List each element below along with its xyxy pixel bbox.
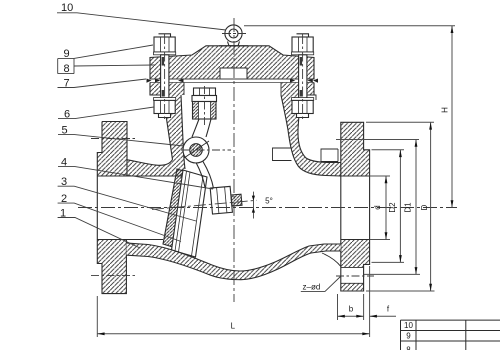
svg-text:D2: D2: [388, 202, 397, 213]
svg-text:7: 7: [64, 78, 70, 90]
svg-text:6: 6: [64, 109, 70, 121]
svg-text:5°: 5°: [265, 197, 273, 206]
svg-text:3: 3: [61, 176, 67, 188]
svg-text:4: 4: [61, 157, 67, 169]
svg-text:5: 5: [62, 125, 68, 137]
svg-text:10: 10: [61, 2, 73, 14]
svg-text:9: 9: [64, 48, 70, 60]
svg-text:8: 8: [406, 346, 411, 350]
svg-text:8: 8: [64, 63, 70, 75]
svg-text:D: D: [420, 204, 429, 210]
svg-text:H: H: [440, 107, 449, 113]
svg-text:d: d: [373, 205, 382, 209]
svg-text:L: L: [231, 322, 236, 331]
svg-text:z–ød: z–ød: [303, 283, 321, 292]
svg-text:D1: D1: [404, 202, 413, 213]
svg-text:b: b: [349, 305, 354, 314]
svg-text:10: 10: [404, 321, 413, 330]
svg-text:9: 9: [406, 332, 411, 341]
svg-text:1: 1: [60, 208, 66, 220]
svg-text:2: 2: [61, 193, 67, 205]
